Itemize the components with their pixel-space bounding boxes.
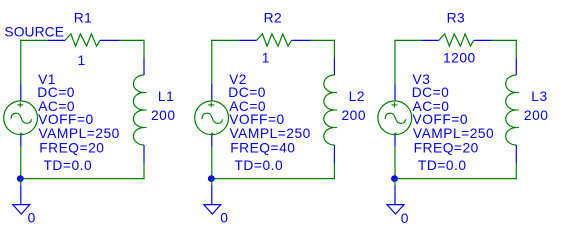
resistor R1 right pin bbox=[100, 39, 119, 41]
voltage source V2 circle bbox=[195, 101, 229, 135]
wire ground stub (circuit 1) bbox=[20, 179, 22, 185]
wire top-left horizontal (circuit 2) bbox=[211, 39, 239, 41]
inductor L3 top pin bbox=[515, 59, 517, 76]
svg-text:L3: L3 bbox=[531, 89, 547, 104]
voltage source V1 circle bbox=[4, 101, 38, 135]
svg-text:0: 0 bbox=[220, 210, 228, 225]
wire top-right horizontal (circuit 2) bbox=[311, 39, 336, 41]
svg-text:SOURCE: SOURCE bbox=[4, 25, 64, 40]
wire top-right horizontal (circuit 3) bbox=[493, 39, 517, 41]
ground pin (circuit 2) bbox=[211, 185, 213, 204]
wire lower-left vertical (circuit 1) bbox=[20, 147, 22, 179]
svg-text:1: 1 bbox=[262, 51, 270, 66]
svg-text:1200: 1200 bbox=[443, 51, 476, 66]
inductor L1 bottom pin bbox=[143, 145, 145, 163]
svg-text:VAMPL=250: VAMPL=250 bbox=[39, 126, 120, 141]
svg-text:DC=0: DC=0 bbox=[228, 85, 266, 100]
svg-text:R2: R2 bbox=[264, 11, 283, 26]
svg-text:VOFF=0: VOFF=0 bbox=[413, 112, 469, 127]
resistor R3 left pin bbox=[422, 39, 439, 41]
svg-text:L2: L2 bbox=[349, 89, 365, 104]
svg-text:0: 0 bbox=[28, 210, 36, 225]
wire left vertical (circuit 3) bbox=[394, 40, 396, 84]
voltage source V2 bottom pin bbox=[211, 135, 213, 147]
svg-text:200: 200 bbox=[342, 108, 367, 123]
svg-text:FREQ=20: FREQ=20 bbox=[39, 140, 104, 155]
voltage source V1 bottom pin bbox=[20, 135, 22, 147]
svg-text:TD=0.0: TD=0.0 bbox=[418, 158, 467, 173]
inductor L1 bbox=[133, 75, 144, 145]
voltage source V3 plus sign bbox=[391, 104, 397, 106]
wire right vertical lower (circuit 2) bbox=[333, 163, 335, 179]
svg-text:R3: R3 bbox=[447, 11, 466, 26]
wire top-left horizontal (circuit 3) bbox=[394, 39, 421, 41]
svg-text:TD=0.0: TD=0.0 bbox=[44, 158, 93, 173]
wire right vertical upper (circuit 3) bbox=[515, 40, 517, 59]
wire ground stub (circuit 2) bbox=[211, 179, 213, 185]
ground pin (circuit 3) bbox=[394, 185, 396, 204]
voltage source V3 bottom pin bbox=[394, 135, 396, 147]
svg-text:DC=0: DC=0 bbox=[37, 85, 75, 100]
inductor L1 top pin bbox=[143, 59, 145, 76]
resistor R3 right pin bbox=[474, 39, 493, 41]
resistor R2 right pin bbox=[292, 39, 311, 41]
voltage source V2 top pin bbox=[211, 84, 213, 101]
voltage source V2 plus sign bbox=[208, 104, 214, 106]
wire right vertical lower (circuit 3) bbox=[515, 163, 517, 179]
wire bottom horizontal (circuit 1) bbox=[20, 178, 144, 180]
svg-text:FREQ=40: FREQ=40 bbox=[230, 140, 295, 155]
wire right vertical lower (circuit 1) bbox=[143, 163, 145, 179]
svg-text:1: 1 bbox=[78, 53, 86, 68]
svg-text:L1: L1 bbox=[158, 89, 174, 104]
inductor L2 bbox=[324, 75, 335, 145]
wire left vertical (circuit 1) bbox=[20, 40, 22, 84]
resistor R3 bbox=[439, 34, 474, 46]
resistor R2 bbox=[257, 34, 292, 46]
svg-text:FREQ=20: FREQ=20 bbox=[414, 140, 479, 155]
wire right vertical upper (circuit 2) bbox=[333, 40, 335, 59]
resistor R1 bbox=[65, 34, 100, 46]
wire ground stub (circuit 3) bbox=[394, 179, 396, 185]
inductor L2 top pin bbox=[333, 59, 335, 76]
resistor R1 left pin bbox=[48, 39, 65, 41]
junction node (circuit 2) bbox=[208, 175, 215, 182]
svg-text:0: 0 bbox=[401, 211, 409, 226]
voltage source V1 top pin bbox=[20, 84, 22, 101]
svg-text:R1: R1 bbox=[74, 11, 93, 26]
svg-text:DC=0: DC=0 bbox=[412, 85, 450, 100]
svg-text:VOFF=0: VOFF=0 bbox=[38, 112, 94, 127]
voltage source V1 plus sign bbox=[17, 104, 23, 106]
svg-text:200: 200 bbox=[524, 108, 549, 123]
ground symbol 0 (circuit 1) bbox=[13, 205, 30, 214]
inductor L2 bottom pin bbox=[333, 145, 335, 163]
junction node (circuit 3) bbox=[391, 175, 398, 182]
wire left vertical (circuit 2) bbox=[211, 40, 213, 84]
svg-text:VOFF=0: VOFF=0 bbox=[229, 112, 285, 127]
voltage source V1 minus sign bbox=[20, 132, 23, 134]
wire lower-left vertical (circuit 3) bbox=[394, 147, 396, 179]
ground symbol 0 (circuit 3) bbox=[387, 205, 404, 214]
wire lower-left vertical (circuit 2) bbox=[211, 147, 213, 179]
junction node (circuit 1) bbox=[17, 175, 24, 182]
svg-text:VAMPL=250: VAMPL=250 bbox=[413, 126, 494, 141]
svg-text:VAMPL=250: VAMPL=250 bbox=[230, 126, 311, 141]
wire top-left horizontal (circuit 1) bbox=[20, 39, 48, 41]
wire bottom horizontal (circuit 2) bbox=[211, 178, 335, 180]
voltage source V1 sine wave bbox=[11, 113, 32, 123]
ground pin (circuit 1) bbox=[20, 185, 22, 204]
inductor L3 bbox=[506, 75, 517, 145]
ground symbol 0 (circuit 2) bbox=[204, 205, 221, 214]
voltage source V3 circle bbox=[378, 101, 412, 135]
svg-text:TD=0.0: TD=0.0 bbox=[235, 158, 284, 173]
voltage source V2 sine wave bbox=[202, 113, 223, 123]
voltage source V3 top pin bbox=[394, 84, 396, 101]
resistor R2 left pin bbox=[240, 39, 257, 41]
voltage source V3 minus sign bbox=[394, 132, 397, 134]
inductor L3 bottom pin bbox=[515, 145, 517, 163]
voltage source V3 sine wave bbox=[385, 113, 406, 123]
wire bottom horizontal (circuit 3) bbox=[394, 178, 517, 180]
voltage source V2 minus sign bbox=[211, 132, 214, 134]
wire right vertical upper (circuit 1) bbox=[143, 40, 145, 59]
svg-text:200: 200 bbox=[151, 108, 176, 123]
wire top-right horizontal (circuit 1) bbox=[119, 39, 145, 41]
